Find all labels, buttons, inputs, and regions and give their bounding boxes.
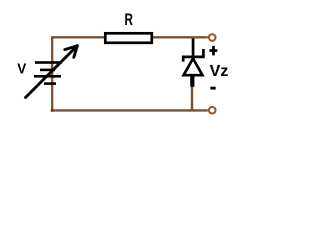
wire top rail: [52, 36, 208, 38]
wire zener bottom vertical: [191, 86, 194, 111]
svg-text:Vz: Vz: [210, 63, 229, 80]
battery plate short: [40, 69, 55, 72]
wire bottom rail: [51, 109, 208, 111]
resistor R: [105, 33, 152, 43]
label minus: [210, 87, 215, 90]
junction dot bottom-left corner: [51, 109, 54, 112]
zener bottom lead: [190, 77, 194, 87]
svg-text:R: R: [125, 11, 133, 29]
terminal bottom circle: [209, 107, 216, 114]
battery plate long bottom: [34, 75, 61, 78]
wire left vertical: [51, 36, 53, 110]
zener top lead: [192, 39, 195, 57]
variable arrow: [26, 46, 78, 98]
zener cathode bar: [183, 49, 203, 62]
zener triangle: [184, 59, 203, 76]
label plus: [209, 46, 217, 56]
terminal top circle: [209, 34, 216, 41]
battery plate short bottom: [44, 82, 56, 85]
battery plate long top: [35, 61, 62, 64]
svg-text:V: V: [17, 60, 27, 77]
